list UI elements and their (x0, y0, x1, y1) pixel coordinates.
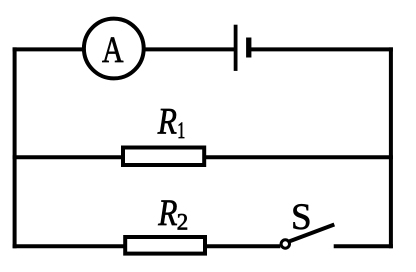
battery short plate (-) (246, 38, 251, 58)
battery long plate (+) (234, 25, 238, 71)
svg-text:A: A (102, 30, 124, 71)
switch S blade (289, 225, 334, 242)
wire: middle segment left to R1 (13, 155, 123, 159)
svg-text:R: R (157, 193, 177, 234)
svg-text:S: S (291, 197, 312, 238)
ammeter A circle (84, 19, 144, 79)
svg-text:1: 1 (177, 118, 185, 143)
wire: top segment battery to right corner (251, 47, 393, 51)
wire: middle segment R1 to right (206, 155, 393, 159)
switch S pivot circle (281, 240, 289, 248)
wire: bottom segment left to R2 (13, 244, 125, 248)
svg-text:2: 2 (177, 210, 189, 235)
resistor R1 body (123, 148, 204, 166)
svg-text:R: R (157, 101, 177, 142)
wire: top segment from left corner to ammeter (13, 47, 83, 51)
wire: top segment ammeter to battery (146, 47, 236, 51)
wire: right vertical bus (389, 47, 393, 248)
wire: bottom segment switch to right corner (334, 244, 393, 248)
wire: bottom segment R2 to switch (207, 244, 280, 248)
resistor R2 body (125, 237, 205, 254)
wire: left vertical bus (13, 47, 17, 248)
